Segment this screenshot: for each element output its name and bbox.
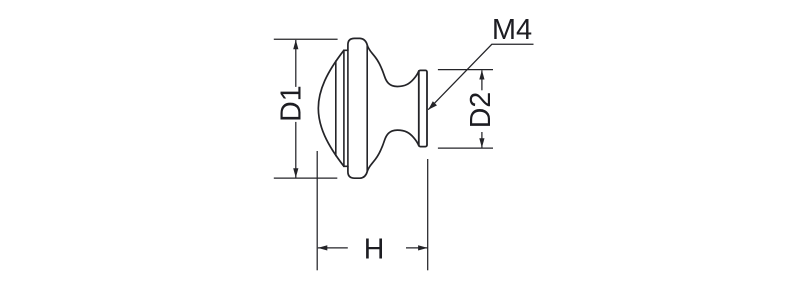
svg-text:M4: M4: [492, 14, 532, 46]
svg-text:H: H: [364, 234, 385, 266]
svg-text:D2: D2: [465, 92, 497, 128]
svg-text:D1: D1: [276, 85, 308, 121]
